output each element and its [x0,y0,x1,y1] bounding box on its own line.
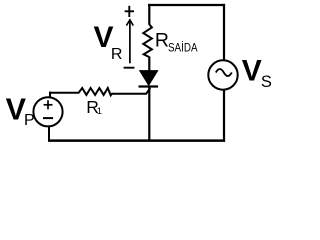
AC source VS sine wave [216,69,232,76]
svg-text:1: 1 [97,106,102,117]
svg-text:SAİDA: SAİDA [168,42,198,55]
AC source VS circle [208,60,237,89]
SCR Q1 cathode bar [139,85,159,87]
wire R1 to SCR gate [112,93,147,95]
label VP [6,92,35,129]
wire middle branch upper vertical [148,4,150,25]
svg-text:V: V [242,55,262,88]
label VR [94,21,123,63]
SCR Q1 anode triangle [140,71,158,86]
wire bottom horizontal [48,139,225,142]
voltage source VP circle [33,97,62,126]
VR arrow [126,20,133,64]
svg-text:R: R [155,30,169,52]
wire middle branch lower vertical [148,87,150,142]
wire VP bottom stub [48,126,50,142]
label VS [242,55,272,91]
VP plus sign [44,100,53,109]
wire between resistor and SCR [148,57,150,71]
label R1 [86,97,102,117]
label R_SAIDA [155,30,198,55]
VR minus sign [124,67,135,69]
VR plus sign [125,6,134,17]
wire right branch lower vertical [223,90,225,142]
wire top horizontal [148,4,225,6]
wire VP to R1 [49,92,79,94]
VP minus sign [43,117,53,119]
svg-text:P: P [24,112,35,129]
wire right branch upper vertical [223,4,225,60]
svg-text:R: R [111,46,123,63]
SCR gate diagonal [146,88,150,94]
resistor R1 zigzag [78,88,112,95]
wire VP top stub [49,92,51,98]
resistor R_SAIDA zigzag [143,24,152,57]
svg-text:S: S [261,73,272,91]
